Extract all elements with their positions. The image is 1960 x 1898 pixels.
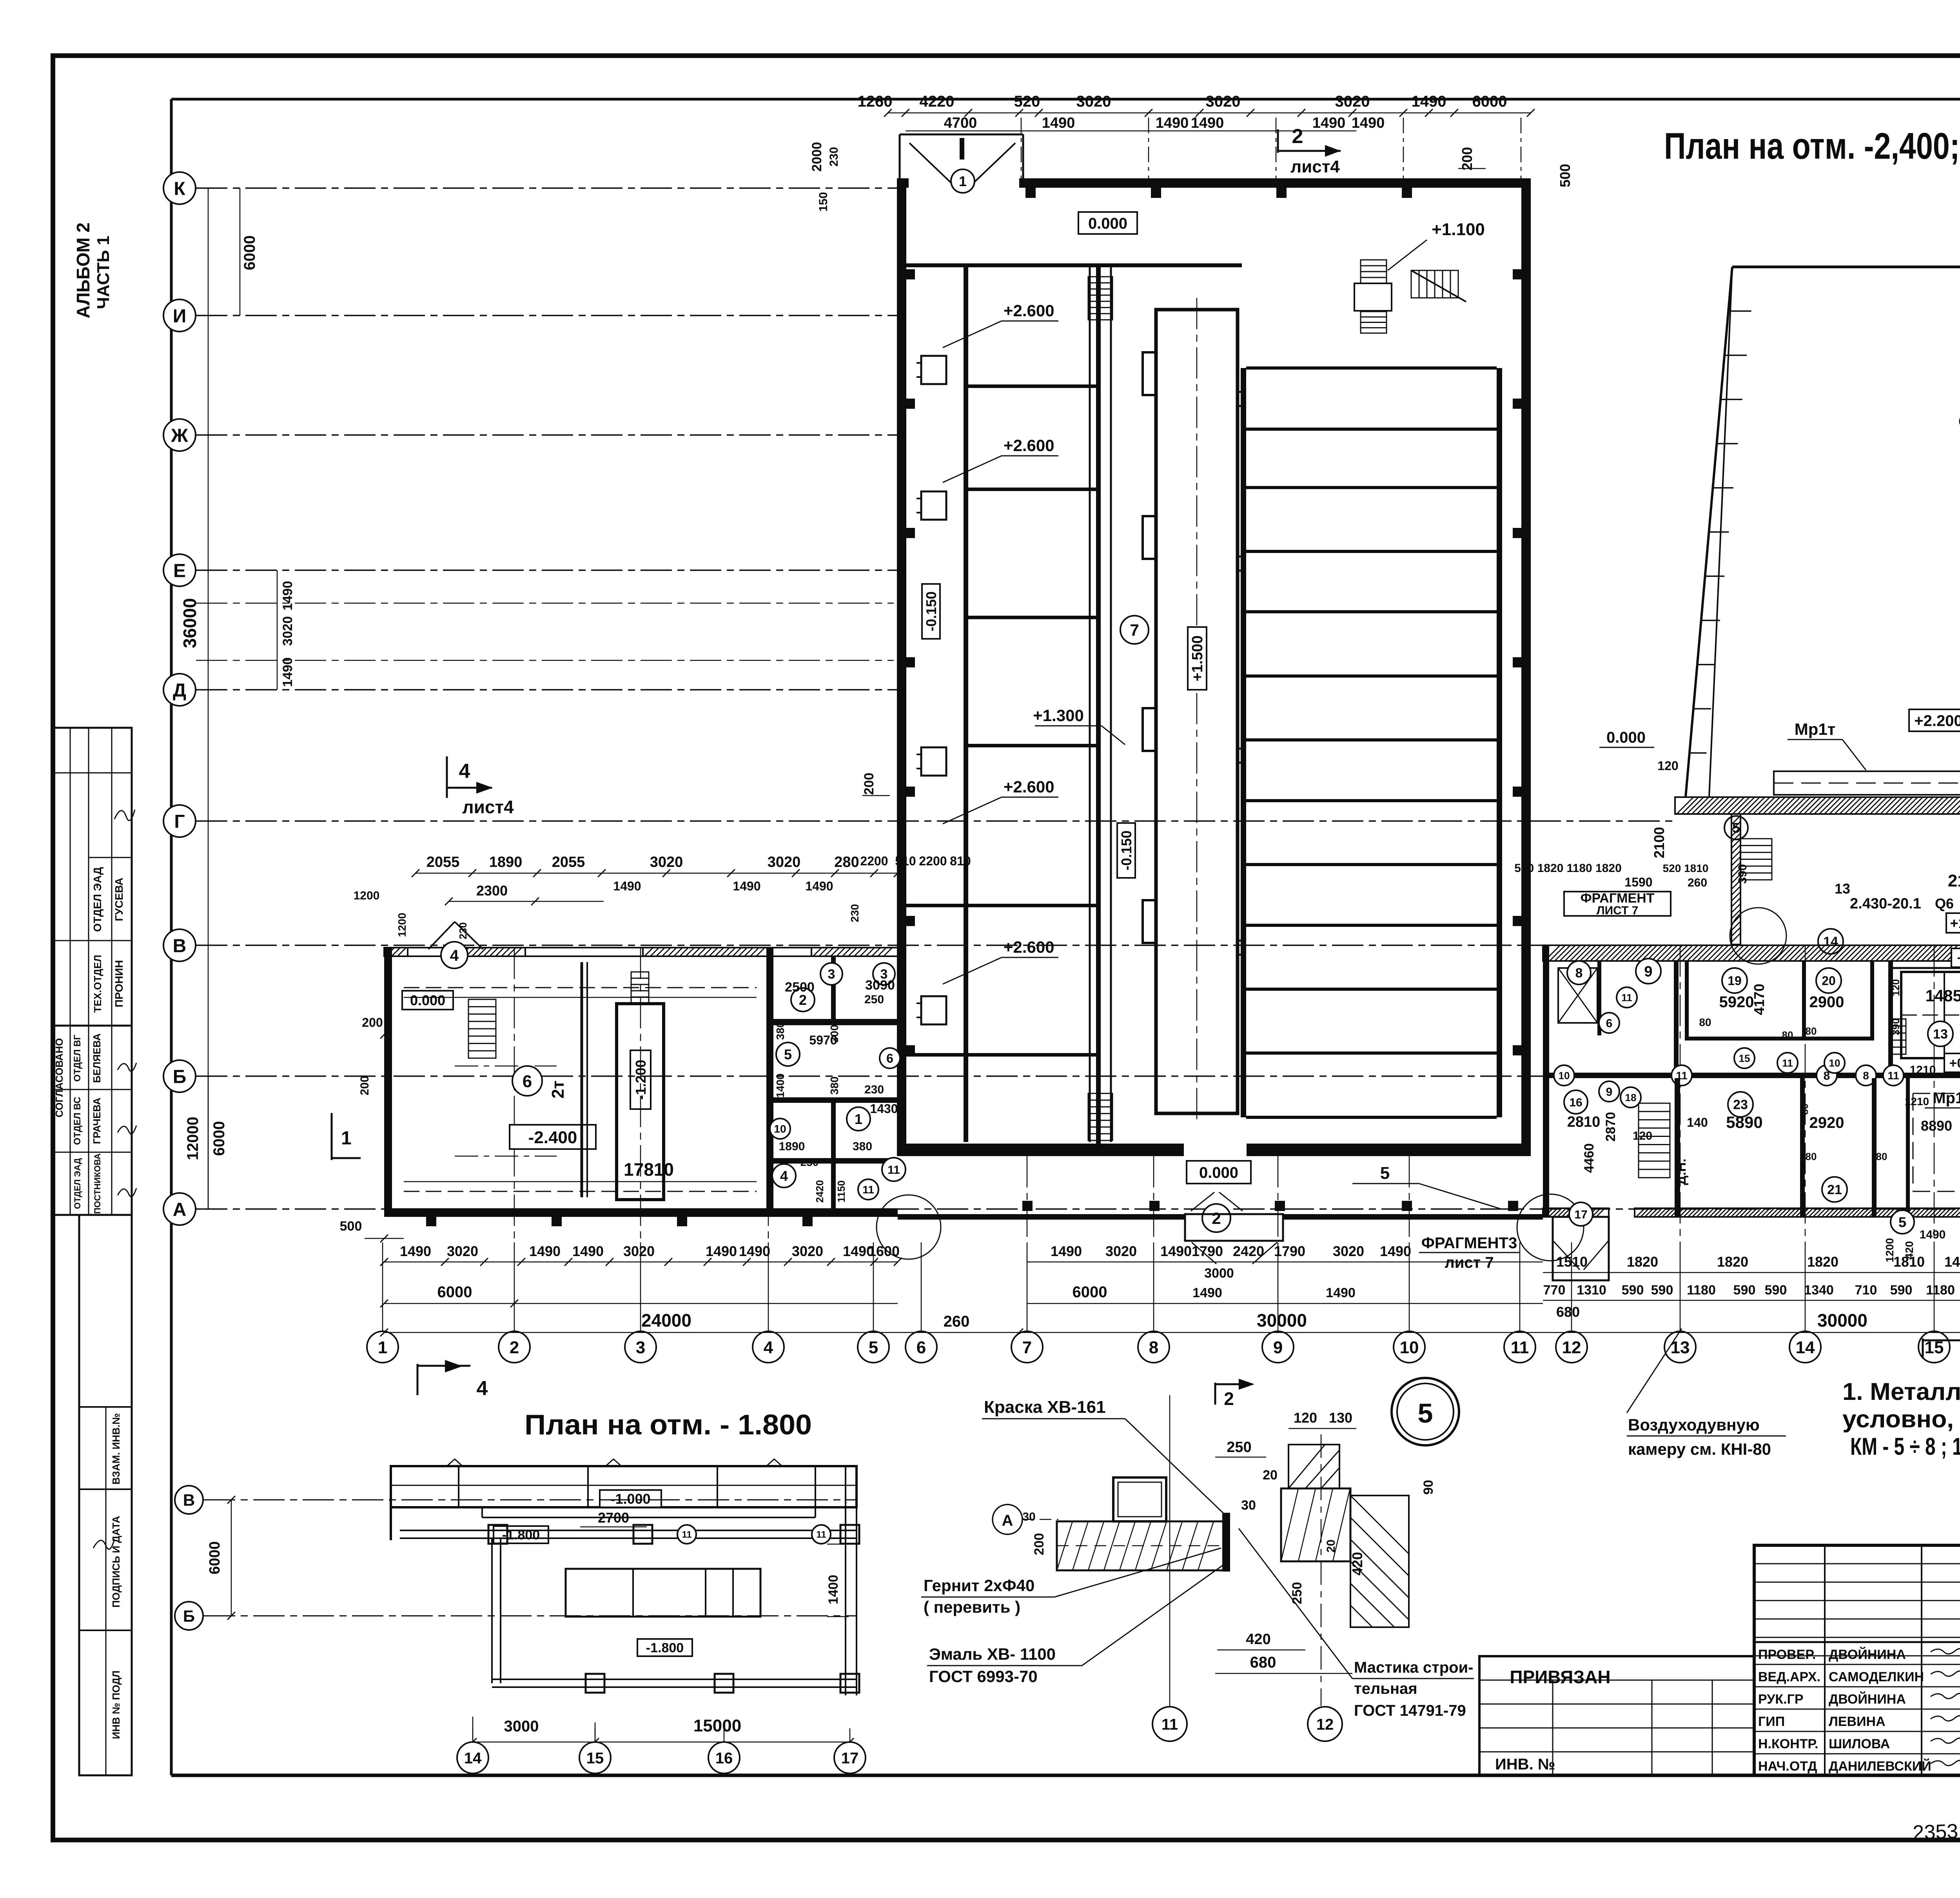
pipe column square bbox=[840, 1525, 859, 1544]
svg-text:+2.200: +2.200 bbox=[1914, 712, 1960, 729]
svg-text:11: 11 bbox=[1621, 992, 1632, 1003]
svg-text:250: 250 bbox=[1227, 1439, 1251, 1456]
svg-text:-1.800: -1.800 bbox=[646, 1641, 684, 1655]
svg-text:5: 5 bbox=[784, 1046, 792, 1062]
svg-text:4: 4 bbox=[450, 947, 459, 964]
svg-text:1: 1 bbox=[341, 1128, 352, 1149]
hall left room partition bbox=[966, 616, 1096, 619]
ladder +1.100 bbox=[1361, 260, 1387, 283]
svg-text:420: 420 bbox=[1246, 1631, 1270, 1648]
llb pilaster bbox=[426, 1217, 436, 1226]
detail bubble 12 bbox=[1308, 1707, 1342, 1741]
trapezoid left rung bbox=[1728, 310, 1751, 312]
grid bubble 14 small plan bbox=[457, 1742, 488, 1773]
svg-text:2420: 2420 bbox=[814, 1180, 826, 1203]
room 8 9 partitions bbox=[1597, 961, 1601, 1035]
svg-text:10: 10 bbox=[1559, 1070, 1570, 1081]
svg-text:+2.600: +2.600 bbox=[1004, 778, 1054, 796]
tank notch bbox=[1143, 352, 1156, 395]
grid line column 6 bbox=[921, 1242, 922, 1331]
svg-text:11: 11 bbox=[816, 1530, 826, 1540]
llb top dim tick bbox=[662, 869, 670, 877]
axis bubble 1 canopy bbox=[951, 169, 975, 193]
svg-text:ИНВ № ПОДЛ: ИНВ № ПОДЛ bbox=[110, 1670, 122, 1739]
svg-text:ИНВ. №: ИНВ. № bbox=[1495, 1756, 1555, 1773]
svg-text:590: 590 bbox=[1890, 1283, 1913, 1298]
svg-text:Мр1т: Мр1т bbox=[1933, 1089, 1960, 1107]
grid bubble 17 small plan bbox=[834, 1742, 866, 1773]
svg-text:90: 90 bbox=[1421, 1480, 1436, 1495]
svg-text:2000: 2000 bbox=[809, 142, 824, 172]
south wall pilaster bbox=[1402, 1201, 1412, 1211]
svg-text:-1.200: -1.200 bbox=[633, 1060, 649, 1100]
hall top wall windows bbox=[1156, 179, 1215, 183]
hall left room partition low bbox=[906, 904, 1096, 907]
south wall pilaster bbox=[1022, 1201, 1033, 1211]
B wall bbox=[1543, 1073, 1960, 1078]
llb top dim tick bbox=[598, 869, 606, 877]
detail upper hatch band bbox=[1289, 1445, 1339, 1488]
pilaster right wall bbox=[1513, 787, 1521, 797]
small plan equipment bbox=[566, 1569, 760, 1617]
top dim tick bbox=[1348, 109, 1356, 117]
svg-text:НАЧ.ОТД: НАЧ.ОТД bbox=[1758, 1759, 1817, 1774]
pipe bubble 11b bbox=[812, 1525, 831, 1544]
svg-text:1600: 1600 bbox=[868, 1243, 900, 1259]
grid line Д bbox=[196, 689, 898, 690]
svg-text:3020: 3020 bbox=[1105, 1243, 1137, 1259]
svg-text:1890: 1890 bbox=[779, 1140, 805, 1153]
small plan left wall bbox=[390, 1466, 392, 1540]
privyazan table bbox=[1479, 1656, 1754, 1775]
small plan top band bbox=[391, 1466, 857, 1507]
detail circle south left bbox=[877, 1195, 941, 1259]
svg-text:80: 80 bbox=[1782, 1029, 1793, 1041]
svg-text:ДВОЙНИНА: ДВОЙНИНА bbox=[1829, 1691, 1906, 1707]
svg-text:3020: 3020 bbox=[650, 854, 683, 870]
svg-text:520 1810: 520 1810 bbox=[1663, 862, 1709, 874]
small plan letter B2 bbox=[204, 1615, 857, 1617]
svg-text:3020: 3020 bbox=[623, 1243, 655, 1259]
svg-text:1490: 1490 bbox=[706, 1243, 737, 1259]
svg-text:1890: 1890 bbox=[489, 854, 523, 870]
grid column line 7 south bbox=[1027, 1156, 1028, 1242]
grid bubble 6 bottom bbox=[906, 1331, 937, 1363]
svg-text:1490: 1490 bbox=[1192, 1285, 1222, 1300]
grid line column 15 bbox=[1934, 1242, 1935, 1331]
grid bubble 16 small plan bbox=[708, 1742, 740, 1773]
svg-text:ПРОВЕР.: ПРОВЕР. bbox=[1758, 1647, 1816, 1662]
svg-text:200: 200 bbox=[1032, 1533, 1047, 1555]
svg-text:14850: 14850 bbox=[1926, 986, 1960, 1005]
svg-text:1490: 1490 bbox=[1156, 115, 1189, 131]
svg-text:1180: 1180 bbox=[1926, 1283, 1955, 1298]
svg-text:380: 380 bbox=[853, 1140, 872, 1153]
title block top hline bbox=[1754, 1641, 1960, 1643]
top dim tick bbox=[1145, 109, 1152, 117]
svg-text:21: 21 bbox=[1827, 1182, 1842, 1197]
small plan lower edge band bbox=[391, 1506, 482, 1508]
pilaster bbox=[1025, 188, 1036, 198]
svg-text:3020: 3020 bbox=[447, 1243, 478, 1259]
svg-text:1490: 1490 bbox=[805, 879, 833, 893]
svg-text:250: 250 bbox=[800, 1156, 819, 1168]
svg-text:9: 9 bbox=[1606, 1086, 1613, 1099]
grid line column 13 bbox=[1680, 1242, 1681, 1331]
svg-text:Ж: Ж bbox=[171, 425, 188, 446]
signature scribble bbox=[1931, 1649, 1960, 1654]
svg-text:4: 4 bbox=[780, 1168, 788, 1184]
tank row line bbox=[1246, 674, 1497, 678]
svg-text:0.000: 0.000 bbox=[1606, 729, 1646, 746]
top dim tick bbox=[1298, 109, 1305, 117]
svg-text:230: 230 bbox=[864, 1083, 884, 1096]
svg-text:+2.600: +2.600 bbox=[1004, 436, 1054, 455]
grid line А bbox=[196, 1208, 1960, 1209]
svg-text:1490: 1490 bbox=[1944, 1254, 1960, 1270]
G' wall hatched bbox=[1675, 797, 1960, 814]
svg-text:5890: 5890 bbox=[1726, 1113, 1762, 1131]
svg-text:810: 810 bbox=[950, 854, 971, 868]
tank tick right bbox=[1238, 749, 1245, 763]
svg-text:2: 2 bbox=[510, 1338, 519, 1357]
room 16 content bbox=[1564, 1090, 1588, 1114]
room bubbles 8 9 bbox=[1567, 961, 1591, 984]
tank block left edge bbox=[1241, 368, 1246, 1117]
svg-text:1: 1 bbox=[959, 173, 967, 189]
svg-text:6000: 6000 bbox=[211, 1121, 228, 1156]
svg-text:23: 23 bbox=[1733, 1097, 1748, 1112]
svg-text:1310: 1310 bbox=[1577, 1283, 1606, 1298]
hall top wall gap entrance bbox=[1022, 178, 1024, 188]
tank row line bbox=[1246, 1116, 1497, 1119]
svg-text:3: 3 bbox=[636, 1338, 645, 1357]
detail seal strip bbox=[1222, 1513, 1230, 1572]
svg-text:3020: 3020 bbox=[792, 1243, 823, 1259]
signature scribble bbox=[1931, 1693, 1960, 1699]
room 19 content bbox=[1722, 968, 1747, 993]
svg-text:20: 20 bbox=[1263, 1468, 1278, 1483]
grid column line 8 south bbox=[1153, 1156, 1154, 1242]
svg-text:230: 230 bbox=[849, 904, 861, 923]
svg-text:1: 1 bbox=[378, 1338, 387, 1357]
bottom dim tick A bbox=[870, 1258, 878, 1266]
svg-text:380: 380 bbox=[774, 1022, 786, 1040]
svg-text:1820: 1820 bbox=[1807, 1254, 1838, 1270]
room 23 content bbox=[1728, 1092, 1753, 1117]
svg-text:4220: 4220 bbox=[920, 93, 955, 110]
svg-text:1400: 1400 bbox=[826, 1575, 841, 1604]
svg-text:2055: 2055 bbox=[552, 854, 585, 870]
level -1.000 box bbox=[600, 1490, 661, 1507]
grid bubble 13 bottom bbox=[1664, 1331, 1696, 1363]
svg-text:ФРАГМЕНТ3: ФРАГМЕНТ3 bbox=[1421, 1235, 1517, 1252]
level -1.800 box lower bbox=[637, 1639, 692, 1656]
appendix left wall bbox=[1731, 814, 1740, 944]
svg-text:ГОСТ 14791-79: ГОСТ 14791-79 bbox=[1354, 1702, 1466, 1719]
svg-text:+1.300: +1.300 bbox=[1033, 706, 1084, 725]
svg-text:11: 11 bbox=[1161, 1716, 1178, 1733]
svg-text:1490: 1490 bbox=[739, 1243, 770, 1259]
left dim tick col bbox=[277, 570, 278, 690]
svg-text:14: 14 bbox=[464, 1749, 482, 1767]
left dim vertical line bbox=[208, 188, 209, 1209]
svg-text:120: 120 bbox=[1657, 759, 1678, 773]
svg-text:И: И bbox=[173, 306, 187, 326]
detail big circle 5 bbox=[1392, 1378, 1459, 1445]
A wall right complex bbox=[1543, 1208, 1609, 1217]
equipment box bbox=[921, 491, 946, 520]
svg-text:80: 80 bbox=[1699, 1016, 1711, 1028]
axis bubble 5 G wall bbox=[1724, 816, 1748, 839]
svg-text:6: 6 bbox=[886, 1051, 893, 1066]
level -1.800 box upper bbox=[494, 1526, 548, 1543]
llb tank stairs bbox=[631, 972, 649, 1003]
grid bubble Ж left bbox=[163, 419, 196, 451]
llb top dim tick bbox=[870, 869, 878, 877]
bottom dim tick A bbox=[606, 1258, 613, 1266]
svg-text:ГИП: ГИП bbox=[1758, 1714, 1785, 1729]
llb bottom wall bbox=[384, 1208, 898, 1217]
signature scribble bbox=[1931, 1738, 1960, 1743]
svg-text:ПРОНИН: ПРОНИН bbox=[113, 960, 125, 1008]
svg-text:16: 16 bbox=[715, 1749, 733, 1767]
svg-text:ПОСТНИКОВА: ПОСТНИКОВА bbox=[93, 1153, 102, 1214]
svg-text:1150: 1150 bbox=[835, 1180, 847, 1202]
svg-text:ДВОЙНИНА: ДВОЙНИНА bbox=[1829, 1647, 1906, 1662]
tank row line bbox=[1246, 738, 1497, 741]
llb top dim row2 bbox=[449, 901, 604, 902]
llb left wall bbox=[384, 948, 392, 1217]
svg-text:150: 150 bbox=[817, 192, 830, 212]
svg-text:ШИЛОВА: ШИЛОВА bbox=[1829, 1737, 1890, 1751]
svg-text:1820: 1820 bbox=[1627, 1254, 1658, 1270]
svg-text:140: 140 bbox=[1687, 1115, 1708, 1129]
svg-text:80: 80 bbox=[1806, 1025, 1817, 1037]
svg-text:4: 4 bbox=[477, 1377, 488, 1400]
grid line Ж bbox=[196, 434, 898, 435]
svg-text:+2.600: +2.600 bbox=[1004, 301, 1054, 320]
svg-text:30000: 30000 bbox=[1257, 1310, 1307, 1331]
svg-text:4700: 4700 bbox=[944, 115, 977, 131]
trapezoid left rung bbox=[1720, 399, 1742, 401]
top dim tick bbox=[1425, 109, 1433, 117]
detail bubble 11 bbox=[1152, 1707, 1187, 1741]
svg-text:К: К bbox=[174, 178, 185, 199]
svg-text:200: 200 bbox=[362, 1015, 383, 1030]
svg-text:11: 11 bbox=[1782, 1057, 1793, 1069]
svg-text:1490: 1490 bbox=[529, 1243, 561, 1259]
small plan left pipe bbox=[491, 1538, 493, 1683]
grid line И bbox=[196, 315, 898, 316]
trapezoid left rung bbox=[1724, 355, 1747, 356]
equipment box bbox=[921, 996, 946, 1024]
sheet inner frame left vertical bbox=[170, 99, 173, 1775]
grid bubble 4 bottom bbox=[753, 1331, 784, 1363]
tank row line bbox=[1246, 988, 1497, 991]
pilaster bbox=[1402, 188, 1412, 198]
svg-text:3020: 3020 bbox=[1335, 93, 1370, 110]
axis bubble on B wall bbox=[1554, 1065, 1574, 1086]
svg-text:В: В bbox=[173, 935, 187, 956]
svg-text:Краска ХВ-161: Краска ХВ-161 bbox=[984, 1398, 1106, 1417]
svg-text:14: 14 bbox=[1823, 934, 1838, 949]
hall left room partition low bbox=[906, 1053, 1096, 1057]
svg-text:12: 12 bbox=[1562, 1338, 1581, 1357]
svg-text:24000: 24000 bbox=[641, 1310, 691, 1331]
V wall hatched band bbox=[1543, 945, 1960, 961]
svg-text:В: В bbox=[183, 1491, 195, 1509]
tank row line bbox=[1246, 799, 1497, 802]
pilaster bbox=[1151, 188, 1161, 198]
trapezoid left rung bbox=[1701, 620, 1720, 621]
llb pilaster bbox=[552, 1217, 562, 1226]
top dim tick bbox=[1450, 109, 1458, 117]
trapezoid left rung bbox=[1693, 708, 1711, 710]
svg-text:+1.500: +1.500 bbox=[1189, 635, 1206, 681]
svg-text:1790: 1790 bbox=[1192, 1243, 1223, 1259]
tank notch bbox=[1143, 900, 1156, 943]
grid column line 3 through building bbox=[640, 948, 641, 1242]
svg-text:590: 590 bbox=[1651, 1283, 1673, 1298]
svg-text:17: 17 bbox=[841, 1749, 859, 1767]
svg-text:2: 2 bbox=[1292, 125, 1303, 148]
svg-text:30000: 30000 bbox=[1817, 1310, 1867, 1331]
svg-text:2200: 2200 bbox=[919, 854, 947, 868]
llb stairs left bbox=[468, 999, 496, 1058]
svg-text:3020: 3020 bbox=[1333, 1243, 1364, 1259]
svg-text:камеру см. КНI-80: камеру см. КНI-80 bbox=[1628, 1440, 1771, 1458]
svg-text:3020: 3020 bbox=[1076, 93, 1111, 110]
axis bubble 5 A wall bbox=[1891, 1210, 1914, 1234]
title block name rows bbox=[1754, 1642, 1960, 1643]
svg-text:13: 13 bbox=[1835, 881, 1850, 897]
svg-text:6: 6 bbox=[916, 1338, 926, 1357]
hall corridor lines bbox=[1089, 265, 1091, 1142]
equipment box bbox=[921, 356, 946, 384]
svg-text:680: 680 bbox=[1556, 1304, 1580, 1320]
sidebar sig2 bbox=[118, 1063, 136, 1071]
svg-text:590: 590 bbox=[1622, 1283, 1644, 1298]
svg-text:15: 15 bbox=[586, 1749, 604, 1767]
trapezoid left rung bbox=[1705, 576, 1725, 577]
axis bubble on B wall bbox=[1883, 1065, 1904, 1086]
svg-text:11: 11 bbox=[682, 1530, 691, 1540]
svg-text:5920: 5920 bbox=[1719, 993, 1754, 1011]
llb top dim tick bbox=[412, 869, 419, 877]
level 0.000 box hall bbox=[1078, 212, 1137, 234]
sidebar lower stamp table bbox=[54, 1026, 132, 1215]
hall room partition vertical bbox=[964, 263, 968, 1142]
svg-text:1490: 1490 bbox=[1352, 115, 1385, 131]
pilaster right wall bbox=[1513, 399, 1521, 409]
svg-text:13: 13 bbox=[1933, 1027, 1948, 1042]
tank notch bbox=[1143, 708, 1156, 751]
svg-text:590 1820 1180 1820: 590 1820 1180 1820 bbox=[1514, 862, 1622, 875]
svg-text:1180: 1180 bbox=[1687, 1283, 1716, 1298]
svg-text:2420: 2420 bbox=[1233, 1243, 1264, 1259]
grid bubble 8 bottom bbox=[1138, 1331, 1169, 1363]
detail circle south right bbox=[1517, 1194, 1584, 1261]
top axis stubs bbox=[1021, 118, 1022, 178]
svg-text:1820: 1820 bbox=[1717, 1254, 1748, 1270]
svg-text:30: 30 bbox=[1241, 1498, 1256, 1513]
svg-text:15000: 15000 bbox=[693, 1716, 741, 1735]
south wall bbox=[898, 1214, 1185, 1220]
svg-text:+2.600: +2.600 bbox=[1004, 938, 1054, 956]
svg-text:1: 1 bbox=[855, 1111, 862, 1127]
south wall pilaster bbox=[1508, 1201, 1518, 1211]
svg-text:2: 2 bbox=[1224, 1389, 1234, 1409]
grid bubble 15 bottom bbox=[1918, 1331, 1950, 1363]
level -2.400 box bbox=[510, 1125, 596, 1149]
pilaster left wall bbox=[906, 657, 915, 667]
svg-text:1490: 1490 bbox=[1412, 93, 1446, 110]
tank tick right bbox=[1238, 557, 1245, 571]
llb tank bbox=[617, 1004, 664, 1200]
grid line Б bbox=[196, 1075, 1960, 1077]
svg-text:Воздуходувную: Воздуходувную bbox=[1628, 1416, 1760, 1434]
level -0.150 box mid bbox=[1117, 823, 1135, 878]
svg-text:770: 770 bbox=[1543, 1283, 1566, 1298]
svg-text:8: 8 bbox=[1863, 1070, 1869, 1082]
svg-text:2: 2 bbox=[1212, 1209, 1221, 1227]
south wall pilaster bbox=[1275, 1201, 1285, 1211]
bottom pipe square bbox=[715, 1674, 733, 1693]
svg-text:ПРИВЯЗАН: ПРИВЯЗАН bbox=[1510, 1667, 1610, 1687]
top dim tick bbox=[1527, 109, 1535, 117]
svg-text:условно, детальную разработк: условно, детальную разработку см. чертеж… bbox=[1842, 1406, 1960, 1433]
bottom dim tick A bbox=[564, 1258, 572, 1266]
axis bubble on B wall bbox=[1671, 1065, 1692, 1086]
svg-text:1490: 1490 bbox=[1160, 1243, 1192, 1259]
trapezoid left slant bbox=[1686, 267, 1732, 797]
svg-text:САМОДЕЛКИН: САМОДЕЛКИН bbox=[1829, 1670, 1924, 1684]
hall left room partition bbox=[966, 488, 1096, 491]
porch left bbox=[1553, 1217, 1609, 1280]
grid subline E-D 1 bbox=[196, 603, 894, 604]
signature scribble bbox=[1931, 1671, 1960, 1676]
grid line column 7 bbox=[1027, 1242, 1028, 1331]
grid line column 11 bbox=[1519, 1242, 1521, 1331]
svg-text:+1.700: +1.700 bbox=[1957, 950, 1960, 966]
svg-text:3000: 3000 bbox=[1204, 1266, 1234, 1281]
svg-text:А: А bbox=[1002, 1512, 1013, 1529]
bottom dim tick A bbox=[480, 1258, 488, 1266]
svg-text:Е: Е bbox=[173, 560, 186, 581]
grid line column 5 bbox=[873, 1242, 874, 1331]
trapezoid left rung bbox=[1709, 531, 1729, 533]
svg-text:4460: 4460 bbox=[1582, 1143, 1597, 1173]
hall left room partition bbox=[966, 744, 1096, 747]
pilaster left wall bbox=[906, 399, 915, 409]
svg-text:0.000: 0.000 bbox=[410, 992, 445, 1008]
svg-text:8: 8 bbox=[1575, 966, 1583, 981]
grid bubble В left bbox=[163, 929, 196, 961]
svg-text:12000: 12000 bbox=[184, 1117, 201, 1160]
sidebar sig3 bbox=[118, 1126, 136, 1134]
grid bubble 11 bottom bbox=[1504, 1331, 1535, 1363]
room bubble 6 bbox=[512, 1066, 542, 1096]
grid bubble Е left bbox=[163, 554, 196, 586]
svg-text:1490: 1490 bbox=[733, 879, 760, 893]
svg-text:ФРАГМЕНТ: ФРАГМЕНТ bbox=[1581, 891, 1655, 906]
hall partition top room bbox=[906, 263, 1242, 267]
bottom dim row A line bbox=[384, 1262, 898, 1263]
svg-text:4170: 4170 bbox=[1751, 984, 1767, 1015]
svg-text:6000: 6000 bbox=[1472, 93, 1507, 110]
svg-text:РУК.ГР: РУК.ГР bbox=[1758, 1692, 1804, 1707]
